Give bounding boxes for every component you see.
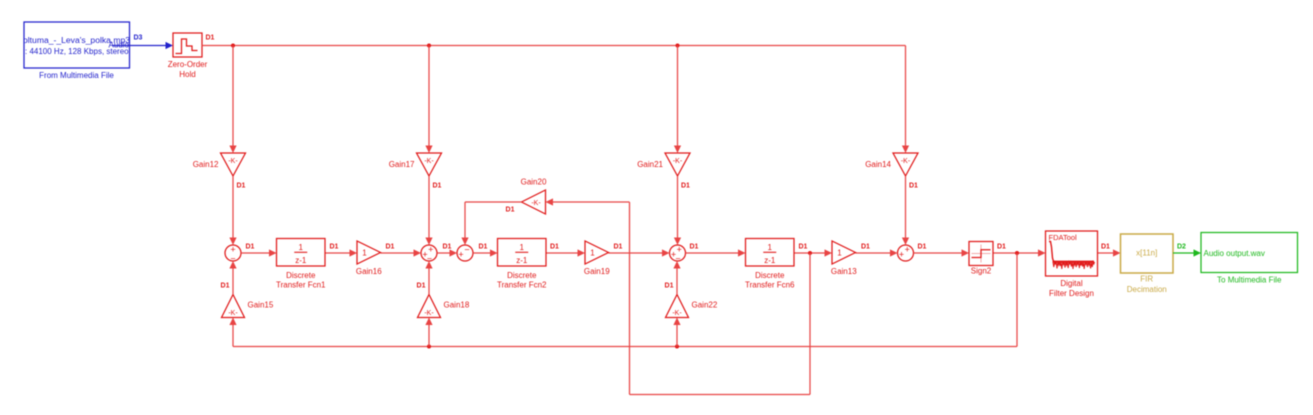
- svg-text:z-1: z-1: [516, 256, 528, 265]
- svg-text:D1: D1: [550, 243, 559, 250]
- svg-text:D1: D1: [206, 35, 215, 42]
- svg-text:-K-: -K-: [424, 158, 434, 165]
- svg-text:D1: D1: [330, 243, 339, 250]
- sum block Sum4 (+ top, + left): [898, 245, 914, 261]
- junction node bottom bus x=429: [427, 345, 431, 349]
- svg-text:-K-: -K-: [531, 200, 541, 207]
- wire: top bus drop into Gain12: [229, 46, 236, 154]
- svg-text:1: 1: [520, 243, 525, 252]
- wire: Gain19 -> Sum3: [609, 249, 670, 256]
- junction node at x=233: [231, 44, 235, 48]
- wire: Sum1 -> Discrete Transfer Fcn1: [241, 249, 277, 256]
- svg-text:Decimation: Decimation: [1127, 285, 1167, 294]
- svg-text:+: +: [899, 250, 904, 260]
- From Multimedia File block U1: [23, 22, 131, 68]
- wire: Fcn6 output junction down and around to Gain20: [546, 198, 813, 394]
- wire: Digital Filter Design -> FIR Decimation: [1098, 249, 1121, 256]
- svg-text:D1: D1: [665, 282, 674, 289]
- Sign2 block: [969, 242, 993, 266]
- svg-text:Transfer Fcn2: Transfer Fcn2: [497, 280, 547, 289]
- sum block Sum3 (+ top, + left, - bottom): [670, 245, 686, 264]
- wire: Discrete Transfer Fcn1 -> Gain16: [325, 249, 357, 256]
- svg-text:-K-: -K-: [228, 310, 238, 317]
- svg-text:Digital: Digital: [1060, 279, 1082, 288]
- wire: Gain20 output to Sum5 top: [461, 202, 521, 245]
- FIR Decimation block: [1121, 234, 1174, 273]
- wire: Gain14 output down to sum: [902, 176, 909, 245]
- svg-text:1: 1: [299, 243, 304, 252]
- svg-text:Transfer Fcn6: Transfer Fcn6: [745, 280, 795, 289]
- label Discrete Transfer Fcn6: [745, 271, 795, 289]
- svg-text:D1: D1: [221, 282, 230, 289]
- svg-text:FDATool: FDATool: [1049, 233, 1078, 242]
- gain Gain14 (triangle pointing down, -K-): [893, 153, 918, 176]
- svg-text:D1: D1: [690, 243, 699, 250]
- svg-text:Audio output.wav: Audio output.wav: [1204, 249, 1265, 258]
- wire D2: FIR Decimation -> To Multimedia File: [1173, 249, 1201, 256]
- wire: Gain21 output down to sum: [674, 176, 681, 245]
- label FIR Decimation: [1127, 274, 1167, 294]
- svg-text:From Multimedia File: From Multimedia File: [39, 71, 114, 80]
- Discrete Transfer Fcn2 block (1/(z-1)): [498, 239, 547, 267]
- svg-text:z-1: z-1: [295, 256, 307, 265]
- svg-text:Gain14: Gain14: [865, 160, 891, 169]
- svg-text:Gain19: Gain19: [584, 267, 610, 276]
- sum block Sum1 (+ top, - bottom): [225, 244, 241, 263]
- wire: top bus from ZOH: [202, 45, 906, 47]
- svg-text:Transfer Fcn1: Transfer Fcn1: [276, 280, 326, 289]
- wire: top bus drop into Gain17: [425, 46, 432, 154]
- svg-text:1: 1: [768, 243, 773, 252]
- svg-text:Discrete: Discrete: [286, 271, 316, 280]
- svg-text:Audio: Audio: [109, 40, 130, 49]
- gain Gain17 (triangle pointing down, -K-): [417, 153, 442, 176]
- svg-text:+: +: [458, 250, 463, 260]
- svg-text:-K-: -K-: [672, 310, 682, 317]
- wire: Gain18 output up into sum: [425, 261, 432, 295]
- svg-text:FIR: FIR: [1140, 274, 1153, 283]
- gain Gain19 (triangle pointing right, value 1): [585, 241, 609, 264]
- junction node at x=429: [427, 44, 431, 48]
- wire: top bus drop into Gain14: [902, 46, 909, 154]
- svg-text:Discrete: Discrete: [755, 271, 785, 280]
- gain Gain22 (triangle pointing up, -K-): [666, 295, 689, 318]
- gain Gain21 (triangle pointing down, -K-): [665, 153, 690, 176]
- svg-text:Hold: Hold: [179, 70, 195, 79]
- label Zero-Order Hold: [168, 60, 208, 79]
- wire: Gain15 output up into sum: [229, 261, 236, 295]
- svg-text:D1: D1: [479, 243, 488, 250]
- Zero-Order Hold block: [173, 33, 202, 57]
- svg-text:Gain12: Gain12: [193, 160, 219, 169]
- wire: Gain13 -> Sum4: [856, 249, 898, 256]
- svg-text:D1: D1: [443, 243, 452, 250]
- svg-text:x[11n]: x[11n]: [1136, 249, 1157, 258]
- svg-text:Gain18: Gain18: [444, 300, 470, 309]
- wire: Gain16 -> Sum2: [381, 249, 422, 256]
- svg-text:-K-: -K-: [901, 158, 911, 165]
- junction node at x=677.5: [676, 44, 680, 48]
- svg-text:Sign2: Sign2: [971, 266, 992, 275]
- svg-text:Gain16: Gain16: [356, 267, 382, 276]
- svg-text:D1: D1: [506, 207, 515, 214]
- svg-text:D1: D1: [246, 243, 255, 250]
- svg-text:D1: D1: [861, 243, 870, 250]
- wire: Sum3 -> Discrete Transfer Fcn6: [686, 249, 746, 256]
- wire: Sign2 output junction down to bottom feedback bus: [233, 251, 1019, 347]
- sum block Sum2 (+ top, + left, - bottom): [421, 245, 437, 264]
- wire: Discrete Transfer Fcn2 -> Gain19: [546, 249, 585, 256]
- svg-text:Gain13: Gain13: [831, 267, 857, 276]
- svg-text:-K-: -K-: [673, 158, 683, 165]
- gain Gain15 (triangle pointing up, -K-): [222, 295, 245, 318]
- svg-text:Gain21: Gain21: [637, 160, 663, 169]
- gain Gain16 (triangle pointing right, value 1): [357, 241, 381, 264]
- svg-text:D1: D1: [681, 182, 690, 189]
- svg-text:Gain15: Gain15: [248, 300, 274, 309]
- svg-text:-K-: -K-: [228, 158, 238, 165]
- label Digital Filter Design: [1049, 279, 1094, 298]
- svg-text:D1: D1: [918, 243, 927, 250]
- gain Gain18 (triangle pointing up, -K-): [418, 295, 441, 318]
- wire: bottom bus up into Gain22: [673, 318, 680, 347]
- label Discrete Transfer Fcn2: [497, 271, 547, 289]
- To Multimedia File block: [1201, 233, 1298, 273]
- gain Gain12 (triangle pointing down, -K-): [221, 153, 246, 176]
- svg-text:D1: D1: [433, 182, 442, 189]
- svg-text:z-1: z-1: [764, 256, 776, 265]
- wire: bottom bus up into Gain15: [229, 318, 236, 347]
- svg-text:Discrete: Discrete: [507, 271, 537, 280]
- junction node bottom bus x=677: [675, 345, 679, 349]
- svg-text:D1: D1: [799, 243, 808, 250]
- Discrete Transfer Fcn1 block (1/(z-1)): [277, 239, 326, 267]
- svg-text:1: 1: [837, 248, 842, 257]
- svg-text:1: 1: [362, 248, 367, 257]
- svg-text:Gain20: Gain20: [521, 177, 547, 186]
- svg-text:D1: D1: [417, 282, 426, 289]
- wire: Sign2 -> Digital Filter Design: [993, 249, 1046, 256]
- wire: top bus drop into Gain21: [674, 46, 681, 154]
- svg-text:To Multimedia File: To Multimedia File: [1217, 276, 1282, 285]
- label Discrete Transfer Fcn1: [276, 271, 326, 289]
- svg-text:Gain22: Gain22: [692, 300, 718, 309]
- svg-text:Filter Design: Filter Design: [1049, 289, 1094, 298]
- wire: Sum5 -> Discrete Transfer Fcn2: [473, 249, 498, 256]
- svg-text:D1: D1: [614, 243, 623, 250]
- svg-text:Zero-Order: Zero-Order: [168, 60, 208, 69]
- wire: Gain12 output down to sum: [229, 176, 236, 245]
- svg-text:D1: D1: [237, 182, 246, 189]
- svg-text:−: −: [427, 253, 432, 263]
- svg-text:1: 1: [590, 248, 595, 257]
- Discrete Transfer Fcn6 block (1/(z-1)): [746, 239, 795, 267]
- wire: Discrete Transfer Fcn6 -> Gain13: [794, 249, 832, 256]
- svg-text:D1: D1: [1101, 243, 1110, 250]
- svg-text:D2: D2: [1177, 243, 1186, 250]
- svg-text:-K-: -K-: [424, 310, 434, 317]
- svg-text:D1: D1: [386, 243, 395, 250]
- wire: Sum2 -> Sum5: [437, 249, 457, 256]
- wire: Gain22 output up into sum: [673, 261, 680, 295]
- wire: bottom bus up into Gain18: [425, 318, 432, 347]
- svg-text:+: +: [905, 245, 910, 255]
- sum block Sum5 (- top, + left): [457, 244, 473, 261]
- svg-text:Gain17: Gain17: [389, 160, 415, 169]
- wire D3: From Multimedia File -> Zero-Order Hold: [112, 42, 173, 49]
- wire: Sum4 -> Sign2: [914, 249, 970, 256]
- gain Gain13 (triangle pointing right, value 1): [832, 241, 856, 264]
- Digital Filter Design block (FDATool): [1046, 231, 1098, 276]
- gain Gain20 (triangle pointing left, -K-): [522, 190, 546, 214]
- svg-text:D1: D1: [997, 243, 1006, 250]
- wire: Gain17 output down to sum: [425, 176, 432, 245]
- svg-text:D1: D1: [909, 182, 918, 189]
- svg-text:−: −: [675, 253, 680, 263]
- svg-text:D3: D3: [134, 35, 143, 42]
- svg-text:−: −: [464, 244, 469, 254]
